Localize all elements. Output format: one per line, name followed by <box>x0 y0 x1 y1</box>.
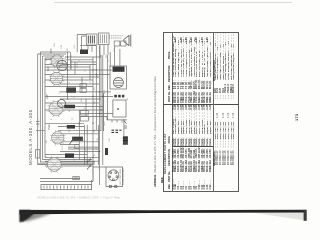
wire: B+ vertical bus <box>68 52 88 165</box>
socket pins <box>110 172 112 174</box>
speaker SP1 <box>124 35 131 47</box>
header underline <box>171 32 174 192</box>
mid horizontal rule <box>212 32 215 192</box>
switch S1 contacts <box>124 121 127 129</box>
component value labels <box>44 43 129 170</box>
resistor ticks bottom left <box>73 177 80 180</box>
tube V6 in box <box>113 78 123 88</box>
IF transformer T1 winding <box>64 105 75 109</box>
bold mark near table top-left <box>160 177 164 183</box>
wire: plate verticals <box>86 55 108 165</box>
antenna trimmer C1 marks <box>36 118 40 128</box>
power unit box <box>110 66 127 89</box>
volume control R9 block <box>72 137 83 141</box>
wire: output ladder <box>38 155 99 167</box>
resistor pair mid <box>75 145 79 149</box>
tube V3 det avc 1U5 <box>48 100 66 118</box>
left-half column rule <box>172 146 213 149</box>
wire: AVC ladder <box>36 123 101 134</box>
wire: strip lead <box>91 180 93 185</box>
osc coil L2 winding <box>80 50 88 55</box>
parts list rows <box>173 191 176 193</box>
capacitor stack C8 C9 <box>80 111 88 116</box>
battery label B B B <box>114 95 117 98</box>
wire: IF stage ladder <box>45 84 113 117</box>
loop antenna L1 nested loops <box>38 52 95 165</box>
tube socket layout box <box>106 167 123 187</box>
wire: battery bracket <box>107 116 127 123</box>
socket circle <box>108 170 119 181</box>
section labels <box>213 152 216 166</box>
capacitor pair C13 C14 <box>114 41 120 46</box>
tube V5 bottom <box>46 156 63 173</box>
wire: filament bus <box>40 167 106 182</box>
tube V1b osc section <box>57 60 67 70</box>
wire: detector ladder <box>60 142 99 152</box>
osc padder block <box>66 87 76 92</box>
wire: top feed bus <box>77 35 96 53</box>
page top edge line <box>54 2 292 4</box>
potentiometer arrow 1 <box>69 141 72 146</box>
filter choke box <box>99 33 110 45</box>
tube V1 converter 1R5 <box>50 54 65 69</box>
socket feet lugs <box>109 185 111 187</box>
wave trap box <box>36 150 40 159</box>
model header <box>28 109 33 165</box>
IF transformer T4 winding dark <box>113 67 125 72</box>
electrolytic C11 dark blob <box>123 136 128 145</box>
junction nodes <box>67 56 104 162</box>
tube V4 output 3V4 <box>50 130 65 145</box>
page number <box>294 114 299 121</box>
battery M2 box <box>113 100 126 117</box>
centre divider vertical <box>163 103 239 106</box>
wire: speaker dashed leads <box>109 36 124 38</box>
electrolytic C10 dark <box>105 148 108 155</box>
battery polarity dot <box>117 108 119 110</box>
wire: converter grid ladder <box>45 57 112 80</box>
wire: screen verticals <box>90 46 101 185</box>
IF transformer T2 winding <box>67 125 75 129</box>
table header row <box>164 133 167 174</box>
table outer border <box>163 32 239 192</box>
potentiometer arrows 2 <box>87 159 91 170</box>
terminal strip marks <box>112 130 122 132</box>
tube V2 IF amp 1U4 <box>49 71 64 86</box>
output transformer T3 box <box>86 34 97 45</box>
parts list title line <box>153 76 157 187</box>
dial scale strip <box>41 185 92 190</box>
resistor stack R1 R2 <box>80 84 86 88</box>
wire: transformer leads <box>88 45 124 137</box>
output choke winding <box>65 153 74 157</box>
